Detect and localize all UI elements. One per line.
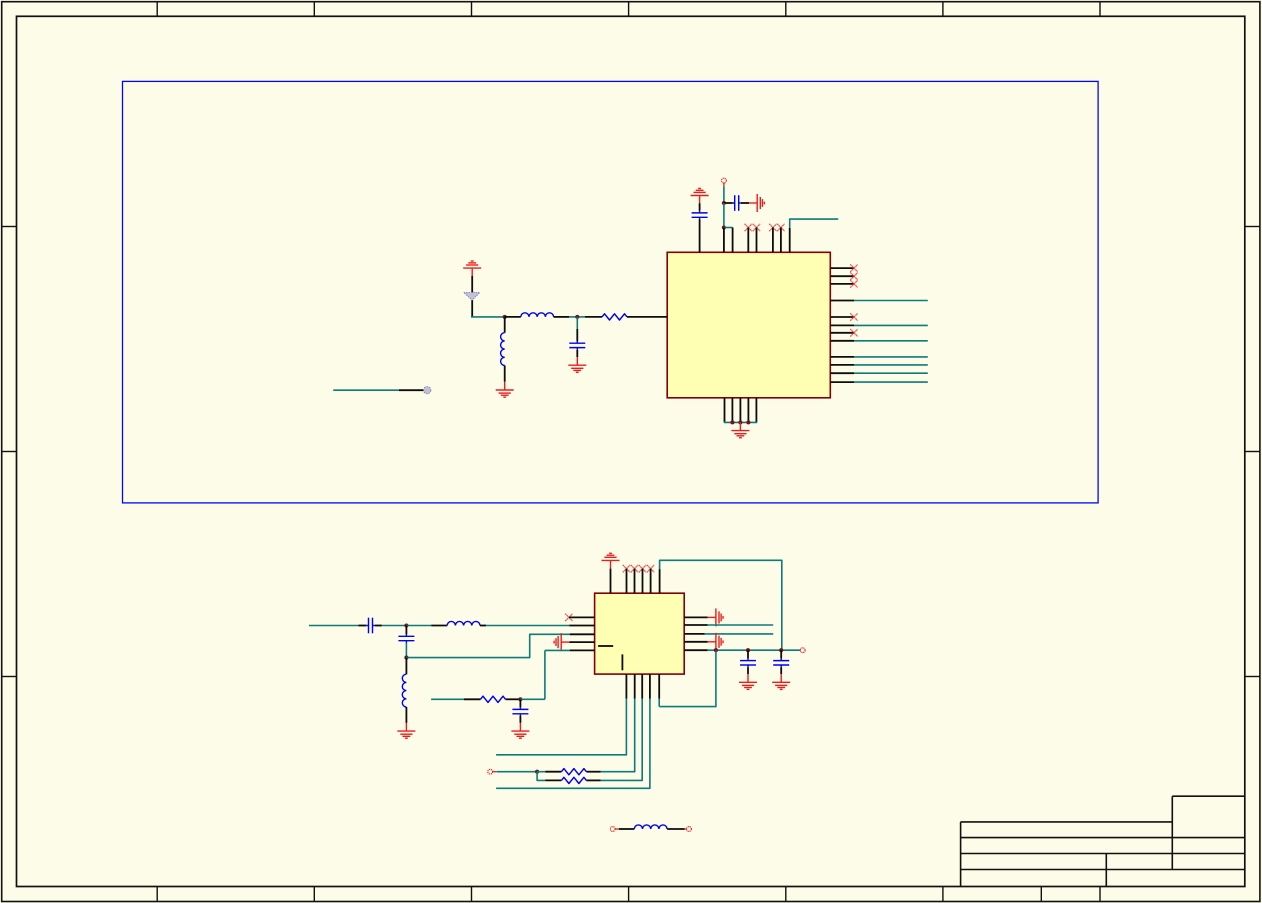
port P4 [610, 827, 615, 832]
node B junction [722, 225, 726, 229]
pin U2 bottom [625, 674, 627, 699]
ground GND5 [602, 553, 620, 568]
wire C4 out [375, 625, 382, 627]
wire node D down [576, 317, 578, 329]
wire P3 to node K [497, 771, 537, 773]
wire U2 top net [660, 560, 782, 650]
wire node D to R1 [585, 316, 602, 318]
pin U1 top 6 [772, 228, 774, 253]
pin U1 top 3 [732, 228, 734, 253]
wire node C down [504, 317, 506, 333]
pin U1 right 4 [830, 300, 854, 302]
pin U2 left 3 [570, 633, 595, 635]
no-ERC cross U2 top 2 [631, 565, 638, 572]
pin U2 top 4 [642, 569, 644, 594]
no-ERC cross right 3 [850, 280, 857, 287]
no-ERC cross right 2 [850, 273, 857, 280]
node A junction [722, 201, 726, 205]
wire antenna down [471, 300, 473, 317]
capacitor C6 [512, 707, 528, 716]
node I junction [746, 648, 750, 652]
wire R2 lead [464, 698, 481, 700]
ground GND2 [496, 382, 514, 397]
pin U2 bottom [658, 674, 660, 699]
ground GND1 [749, 194, 764, 212]
pin U1 right 2 [830, 275, 854, 277]
wire net right3 [705, 633, 773, 635]
capacitor C2 [733, 195, 741, 211]
wire output net [708, 649, 801, 651]
pin U2 left 4 [569, 641, 594, 643]
pin U1 right 6 [830, 324, 854, 326]
power symbol VCC2 [463, 261, 481, 276]
pin U1 right 3 [830, 283, 854, 285]
pin U1 bottom [731, 398, 733, 423]
wire C3 to GND3 [576, 350, 578, 357]
wire R3 out [586, 771, 600, 773]
node K junction [535, 770, 539, 774]
wire test point lead [399, 389, 424, 391]
wire C8 to GND12 [780, 667, 782, 674]
port P3 [488, 769, 493, 774]
node C junction [503, 315, 507, 319]
pin U2 bottom [634, 674, 636, 699]
pin U1 bottom [739, 398, 741, 423]
wire P1 stub [723, 183, 725, 186]
wire P4 stub [615, 828, 619, 830]
ground GND12 [772, 674, 790, 689]
wire node G right [520, 698, 545, 700]
capacitor C4 [366, 618, 374, 634]
wire test point net [333, 389, 399, 391]
pin U2 right 2 [684, 624, 708, 626]
pin U1 right 11 [830, 372, 854, 374]
node J junction [779, 648, 783, 652]
pin U1 right 10 [830, 364, 854, 366]
wire to C3 [576, 329, 578, 341]
pin U2 right 1 [684, 616, 708, 618]
no-ERC cross U2 left 1 [565, 614, 572, 621]
no-ERC cross U2 top 3 [639, 565, 646, 572]
wire node E to L3 [406, 625, 431, 627]
port P5 [687, 827, 692, 832]
wire L3 out [480, 625, 486, 627]
node G junction [518, 697, 522, 701]
pin U2 top 3 [634, 569, 636, 594]
wire node B branch [724, 227, 733, 229]
wire R3 lead [545, 771, 561, 773]
resistor R4 [561, 777, 586, 783]
ground GND8 [511, 723, 529, 738]
no-ERC cross top 3 [769, 224, 776, 231]
U2 symbol line 1 [598, 645, 613, 647]
wire R2 row [431, 698, 464, 700]
wire into C4 [359, 625, 367, 627]
wire net right 8 [854, 340, 928, 342]
wire C7 to GND11 [747, 667, 749, 674]
pin U1 bottom [755, 398, 757, 423]
power symbol VCC1 [691, 188, 709, 203]
capacitor C8 [773, 658, 789, 667]
wire antenna corner [471, 316, 505, 318]
no-ERC cross right 7 [850, 329, 857, 336]
wire C5 to node F [405, 643, 407, 658]
resistor R2 [481, 696, 506, 702]
pin U1 top 4 [747, 228, 749, 253]
port P2 [800, 648, 805, 653]
wire R4 lead [545, 779, 561, 781]
no-ERC cross U2 top 4 [647, 565, 654, 572]
pin U2 top 6 [659, 569, 661, 593]
wire net right 12 [854, 381, 928, 383]
wire node F right [406, 634, 569, 657]
antenna ANT1 [464, 293, 480, 301]
no-ERC cross top 4 [777, 224, 784, 231]
ground GND9 [708, 608, 723, 626]
pin U1 top 5 [756, 228, 758, 253]
wire node C to L1 [505, 316, 521, 318]
wire P3 stub [493, 771, 497, 773]
wire C2 to GND1 [741, 202, 749, 204]
wire bottom2 [601, 699, 635, 772]
wire L3 lead [431, 625, 447, 627]
junction ground bus [730, 420, 734, 424]
wire L5 lead [619, 828, 635, 830]
wire net right 4 [854, 300, 928, 302]
no-ERC cross U2 top 1 [623, 565, 630, 572]
no-ERC cross top 1 [745, 224, 752, 231]
wire L3 to U2 [486, 625, 569, 627]
area box (blue region outline) [123, 81, 1099, 503]
wire node F down [405, 658, 407, 675]
wire node A to C2 [724, 202, 733, 204]
no-ERC cross top 2 [753, 224, 760, 231]
wire net right 10 [854, 364, 928, 366]
wire net right 11 [854, 372, 928, 374]
wire VCC2 to antenna [471, 276, 473, 293]
pin U2 left 1 [569, 616, 595, 618]
wire ground bus [724, 421, 757, 423]
wire L4 to GND6 [405, 707, 407, 723]
pin U2 left 2 [569, 625, 594, 627]
no-ERC cross right 5 [850, 313, 857, 320]
wire into node D [569, 316, 585, 318]
wire R2 to node G [506, 698, 521, 700]
junction ground bus [746, 420, 750, 424]
capacitor C3 [569, 341, 585, 350]
inductor L1 [521, 313, 554, 317]
wire pin5 down [544, 650, 546, 699]
wire C4 to node E [382, 625, 407, 627]
no-ERC cross right 1 [850, 264, 857, 271]
capacitor C7 [740, 658, 756, 667]
pin U1 top 2 [723, 228, 725, 253]
pin U2 left 5 [570, 649, 595, 651]
test point TP1 [424, 387, 431, 394]
ground GND10 [708, 633, 723, 651]
pin U2 right 3 [684, 633, 705, 635]
pin U1 right 9 [830, 356, 854, 358]
pin U2 top 2 [626, 569, 628, 594]
ground GND7 [554, 633, 569, 651]
wire net to U1 top right [790, 219, 839, 228]
wire node K right [537, 771, 545, 773]
wire input net [309, 625, 359, 627]
resistor R3 [561, 769, 586, 775]
wire C1 top [699, 203, 701, 210]
wire net right2 [708, 624, 774, 626]
wire bottom3 [601, 699, 643, 781]
wire node I down [747, 650, 749, 658]
wire node G down [519, 699, 521, 707]
inductor L3 [447, 621, 480, 625]
U2 symbol line 2 [621, 654, 623, 670]
wire C6 to GND8 [519, 716, 521, 723]
node F junction [404, 656, 408, 660]
pin U1 right 1 [830, 267, 854, 269]
wire node A to node B [723, 203, 725, 228]
wire pin5 net [545, 649, 570, 651]
pin U2 bottom [649, 674, 651, 699]
pin U1 top 7 [780, 228, 782, 253]
capacitor C5 [398, 634, 414, 643]
wire L5 out [667, 828, 685, 830]
pin U2 right 4 [684, 641, 708, 643]
inductor L5 [634, 825, 667, 829]
wire R1 to U1 [627, 316, 667, 318]
ground GND3 [568, 357, 586, 372]
wire bottom4 [496, 699, 650, 789]
wire bottom1 [496, 699, 626, 755]
wire net right 6 [854, 324, 928, 326]
node E junction [404, 623, 408, 627]
wire node H loop [659, 650, 716, 706]
wire bottom5 [658, 699, 660, 707]
IC U2 [595, 593, 685, 674]
wire L1 out [554, 316, 569, 318]
pin U2 right 5 [684, 649, 708, 651]
pin U1 right 12 [830, 381, 854, 383]
pin U2 top 5 [650, 569, 652, 594]
ground GND4 [731, 422, 749, 437]
node H junction [714, 648, 718, 652]
IC U1 [667, 252, 830, 397]
wire P1 to node A [723, 186, 725, 203]
ground GND11 [739, 674, 757, 689]
pin U1 top 8 [789, 228, 791, 252]
pin U1 right 5 [830, 316, 854, 318]
pin U1 right 7 [830, 332, 854, 334]
wire net right 9 [854, 356, 928, 358]
pin U1 right 8 [830, 340, 854, 342]
pin U2 top 1 [610, 569, 612, 594]
wire node J down [780, 650, 782, 658]
junction ground bus [738, 420, 742, 424]
pin U2 bottom [641, 674, 643, 699]
node D junction [575, 315, 579, 319]
wire P5 stub [685, 828, 687, 830]
wire L2 to GND2 [504, 366, 506, 382]
pin U1 bottom [724, 398, 726, 423]
pin U1 top 1 [699, 220, 701, 253]
ground GND6 [397, 723, 415, 738]
inductor L4 [402, 674, 406, 707]
inductor L2 [501, 333, 505, 366]
resistor R1 [602, 314, 627, 320]
wire R4 out [586, 779, 600, 781]
wire node K down [537, 772, 545, 781]
pin U1 bottom [747, 398, 749, 423]
wire node E down [405, 626, 407, 635]
port P1 [722, 178, 727, 183]
capacitor C1 [692, 211, 708, 220]
